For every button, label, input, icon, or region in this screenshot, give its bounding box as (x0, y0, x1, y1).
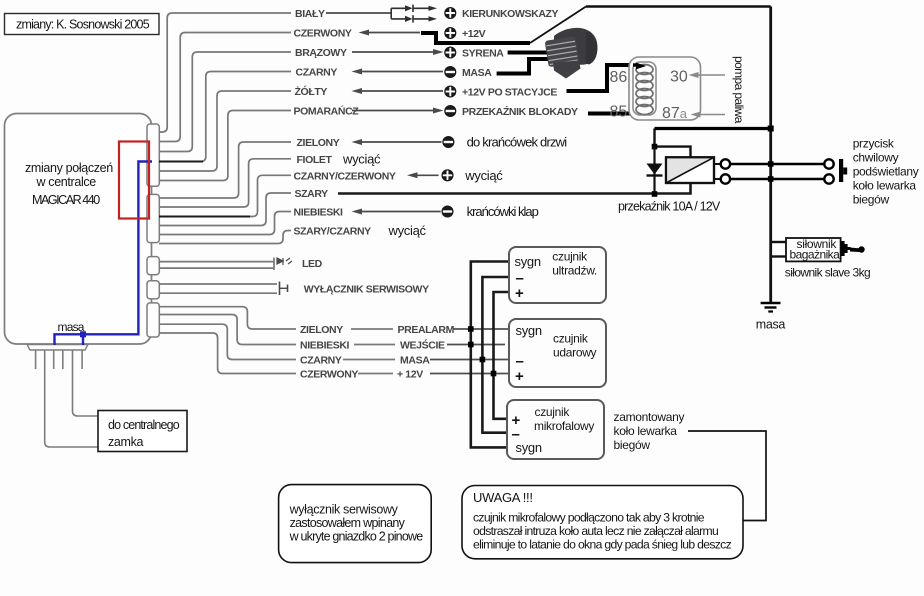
connector tab block 5 (bottom group) (147, 303, 159, 337)
terminal circle lower right (824, 174, 833, 183)
arrow ŻÓŁTY (left) (352, 88, 444, 94)
svg-text:87a: 87a (662, 105, 688, 122)
thick wire +12V PO STACYJCE to relay 86 (567, 65, 634, 91)
connector tab block 1 (147, 124, 159, 186)
svg-text:SZARY/CZARNY: SZARY/CZARNY (294, 226, 372, 238)
connector pin 5 (wire to central lock) (73, 350, 99, 416)
svg-text:BRĄZOWY: BRĄZOWY (295, 47, 347, 59)
connector pin 1 (35, 350, 37, 369)
svg-text:85: 85 (610, 104, 628, 121)
svg-text:koło lewarka: koło lewarka (614, 424, 678, 438)
connector tab block 3 (LED) (147, 257, 159, 275)
svg-text:zamka: zamka (108, 435, 143, 449)
wire BIAŁY to diodes (326, 12, 391, 14)
thick wire SYRENA (508, 51, 554, 55)
wire SZARY (159, 193, 291, 226)
connector tab block 4 (service switch) (147, 281, 159, 299)
wire zamontowany to uwaga box (688, 431, 766, 521)
wire stub to trunk actuator top (771, 241, 786, 243)
svg-text:ŻÓŁTY: ŻÓŁTY (295, 85, 328, 98)
junction dot wejście/sygn bus (468, 342, 474, 348)
wire +12V row to sensor (430, 373, 509, 375)
bus sygn vertical (471, 262, 509, 448)
arrow ZIELONY (left) (352, 139, 444, 145)
svg-text:CZARNY: CZARNY (300, 355, 342, 367)
blue masa wire inside unit (55, 162, 153, 346)
connector pin 4 (62, 350, 64, 369)
svg-text:CZARNY/CZERWONY: CZARNY/CZERWONY (294, 170, 396, 182)
junction dot diode top (652, 144, 658, 150)
svg-text:+: + (515, 285, 524, 302)
svg-text:wyciąć: wyciąć (388, 223, 427, 238)
svg-text:BIAŁY: BIAŁY (295, 8, 325, 20)
svg-text:+: + (515, 368, 524, 385)
aux relay coil box (przekaźnik 10A/12V) (666, 157, 714, 183)
arrow NIEBIESKI (left) (352, 209, 444, 215)
wire PREALARM row to sensor (453, 328, 510, 330)
svg-text:sygn: sygn (515, 254, 541, 269)
wire FIOLET (159, 159, 291, 207)
ground symbol (761, 303, 781, 312)
wire pair service switch (159, 284, 277, 293)
wire SZARY long line to relay (338, 184, 691, 194)
wire CZARNY/CZERWONY black segment (159, 216, 250, 218)
terminal circle upper left (721, 159, 730, 168)
wire ŻÓŁTY (159, 91, 291, 171)
svg-text:eliminuje to latanie do okna g: eliminuje to latanie do okna gdy pada śn… (473, 538, 732, 552)
svg-text:wyciąć: wyciąć (464, 168, 503, 183)
sensor box czujnik mikrofalowy (507, 400, 604, 459)
svg-text:sygn: sygn (516, 440, 542, 455)
arrow BRĄZOWY (right) (352, 49, 444, 55)
junction dot prealarm/sygn bus (468, 326, 474, 332)
node terminal minus (krańcówki klap) (441, 206, 455, 217)
svg-text:koło lewarka: koło lewarka (853, 179, 917, 193)
svg-text:+ 12V: + 12V (397, 369, 423, 381)
svg-text:do centralnego: do centralnego (108, 418, 180, 432)
svg-text:MASA: MASA (400, 355, 430, 367)
red highlight rectangle (119, 142, 149, 219)
svg-text:zmiany połączeń: zmiany połączeń (25, 161, 113, 175)
svg-text:udarowy: udarowy (553, 346, 597, 360)
service switch symbol (280, 282, 288, 296)
svg-text:CZERWONY: CZERWONY (294, 28, 352, 40)
wire ZIELONY (159, 142, 291, 198)
wire from pin 87a (691, 112, 726, 118)
svg-text:masa: masa (756, 318, 786, 332)
node terminal minus (przekaźnik blokady) (444, 106, 458, 117)
svg-text:w centralce: w centralce (36, 175, 97, 189)
wire CZARNY-MASA (343, 359, 395, 361)
diode D3 (flyback) (647, 147, 663, 194)
connector tab block 2 (147, 194, 159, 242)
wire POMARAŃCZ (159, 111, 291, 181)
thick wire +12V (czerwony) step (421, 33, 530, 43)
svg-text:SYRENA: SYRENA (462, 48, 504, 60)
svg-text:bagażnika: bagażnika (790, 248, 841, 262)
actuator plunger (841, 241, 865, 256)
wire MASA row to sensor (430, 359, 509, 361)
connector pin 3 (53, 350, 55, 369)
wire from pin 30 (689, 72, 726, 78)
wire CZERWONY (bottom group) (159, 333, 296, 374)
arrow POMARAŃCZ (right) (352, 108, 444, 114)
wire ZIELONY-PREALARM (351, 328, 393, 330)
svg-text:WYŁĄCZNIK SERWISOWY: WYŁĄCZNIK SERWISOWY (304, 284, 429, 296)
LED symbol (277, 258, 292, 265)
wire CZERWONY (159, 33, 291, 142)
svg-text:LED: LED (302, 258, 323, 270)
note box wyłącznik serwisowy (279, 485, 432, 563)
svg-text:w ukryte gniazdko 2 pinowe: w ukryte gniazdko 2 pinowe (289, 530, 424, 544)
svg-text:przycisk: przycisk (853, 137, 895, 151)
connector pin 2 (wire to central lock) (45, 350, 98, 447)
svg-text:przekaźnik 10A / 12V: przekaźnik 10A / 12V (618, 200, 721, 214)
thick wire aux relay top to rail (655, 127, 771, 130)
svg-text:zamontowany: zamontowany (614, 410, 685, 424)
junction dot diode bottom (652, 191, 658, 197)
relay coil (636, 65, 653, 115)
svg-text:CZERWONY: CZERWONY (300, 369, 358, 381)
node terminal plus (kierunkowskazy) (444, 7, 457, 20)
node terminal plus (+12V po stacyjce) (444, 85, 457, 98)
svg-text:ZIELONY: ZIELONY (300, 324, 343, 336)
svg-text:czujnik: czujnik (535, 405, 571, 419)
wire CZARNY black segment (159, 161, 203, 163)
svg-text:pompa paliwa: pompa paliwa (732, 56, 746, 124)
thick wire PRZEKAŹNIK BLOKADY to relay 85 (588, 112, 640, 116)
svg-text:SZARY: SZARY (295, 188, 329, 200)
wire button lower (731, 178, 824, 180)
arrow CZARNY (left) (352, 69, 444, 75)
main unit MAGICAR 440 (5, 114, 152, 345)
wire NIEBIESKI (bottom group) (159, 315, 296, 345)
label przycisk chwilowy (853, 137, 919, 207)
note box UWAGA (462, 486, 743, 559)
svg-text:WEJŚCIE: WEJŚCIE (400, 339, 445, 352)
wire top bracket of aux relay (655, 129, 691, 158)
wire top rail horizontal (586, 5, 771, 7)
svg-text:krańcówki klap: krańcówki klap (467, 204, 539, 219)
wire CZARNY (159, 72, 291, 162)
diode pair D1 D2 (kierunkowskazy) (391, 5, 437, 23)
svg-text:biegów: biegów (853, 193, 890, 207)
wire SZARY/CZARNY (159, 231, 291, 244)
svg-text:KIERUNKOWSKAZY: KIERUNKOWSKAZY (462, 8, 559, 20)
svg-text:FIOLET: FIOLET (297, 154, 333, 166)
svg-text:CZARNY: CZARNY (296, 67, 338, 79)
svg-text:+12V: +12V (462, 28, 486, 40)
svg-text:chwilowy: chwilowy (853, 151, 899, 165)
wire NIEBIESKI-WEJŚCIE (354, 344, 395, 346)
node terminal plus (syrena) (444, 46, 457, 59)
terminal circle upper right (824, 159, 833, 168)
svg-text:MASA: MASA (462, 67, 492, 79)
box: do centralnego zamka (98, 411, 187, 452)
svg-text:MAGICAR 440: MAGICAR 440 (32, 193, 100, 207)
svg-text:mikrofalowy: mikrofalowy (534, 419, 594, 433)
wire ZIELONY (bottom group) (159, 307, 296, 329)
svg-text:wyciąć: wyciąć (342, 151, 381, 166)
arrow CZARNY/CZERWONY (left) (407, 172, 439, 178)
svg-text:czujnik mikrofalowy podłączono: czujnik mikrofalowy podłączono tak aby 3… (473, 511, 705, 525)
svg-text:POMARAŃCZ: POMARAŃCZ (294, 105, 360, 118)
push button actuator (839, 159, 847, 182)
wire NIEBIESKI (159, 212, 291, 235)
wire BRĄZOWY (159, 52, 291, 152)
svg-text:odstraszał intruza koło auta l: odstraszał intruza koło auta lecz nie za… (473, 524, 718, 538)
junction dot masa/minus bus (480, 357, 486, 363)
relay box (fuel pump relay) (629, 57, 701, 120)
svg-text:siłownik slave 3kg: siłownik slave 3kg (785, 266, 870, 280)
bus minus vertical (482, 277, 509, 433)
svg-text:+12V PO STACYJCE: +12V PO STACYJCE (462, 87, 557, 99)
junction dot rail/upper button wire (768, 161, 774, 167)
svg-text:NIEBIESKI: NIEBIESKI (294, 207, 344, 219)
wire pair LED (159, 258, 274, 271)
thick wire MASA to siren (497, 59, 554, 74)
svg-text:ultradźw.: ultradźw. (552, 264, 597, 278)
node terminal plus (wyciąć) (441, 169, 454, 182)
svg-text:biegów: biegów (614, 438, 651, 452)
label zamontowany koło lewarka biegów (614, 410, 685, 452)
wire stub to trunk actuator bottom (771, 255, 786, 257)
wire CZERWONY-+12V (358, 373, 393, 375)
junction dot rail/lower button wire (768, 176, 774, 182)
svg-text:UWAGA !!!: UWAGA !!! (473, 490, 533, 505)
wire BIAŁY (159, 13, 291, 132)
svg-text:wyłącznik serwisowy: wyłącznik serwisowy (289, 503, 399, 517)
wire WEJŚCIE row (447, 344, 505, 346)
svg-text:masa: masa (58, 320, 85, 334)
trunk actuator box (siłownik bagażnika) (786, 237, 841, 262)
arrowhead into relay coil (636, 63, 646, 70)
siren horn (545, 28, 598, 79)
svg-text:czujnik: czujnik (553, 332, 589, 346)
svg-text:PREALARM: PREALARM (398, 324, 455, 336)
svg-text:30: 30 (670, 69, 688, 86)
sensor box czujnik ultradźw. (509, 247, 606, 303)
svg-text:zmiany: K. Sosnowski 2005: zmiany: K. Sosnowski 2005 (16, 18, 150, 32)
svg-text:NIEBIESKI: NIEBIESKI (300, 340, 350, 352)
svg-text:podświetlany: podświetlany (853, 165, 919, 179)
junction dot +12V/plus bus (491, 371, 497, 377)
svg-text:sygn: sygn (516, 323, 542, 338)
svg-text:zastosowałem wpinany: zastosowałem wpinany (290, 516, 406, 530)
svg-text:do krańcówek drzwi: do krańcówek drzwi (467, 135, 568, 150)
connector pin 6 (81, 350, 83, 369)
bus plus vertical (494, 292, 510, 419)
wire button upper (731, 163, 824, 165)
junction dot rail/top wire (768, 126, 774, 132)
bottom connector strip (27, 345, 88, 351)
sensor box czujnik udarowy (509, 319, 606, 387)
wire CZARNY (bottom group) (159, 324, 296, 359)
info box: zmiany K. Sosnowski 2005 (5, 14, 160, 35)
wire right rail vertical (769, 7, 772, 304)
svg-text:ZIELONY: ZIELONY (297, 137, 340, 149)
node terminal minus (masa) (444, 67, 458, 78)
svg-text:czujnik: czujnik (552, 250, 588, 264)
aux relay terminal stubs (714, 164, 721, 179)
svg-text:PRZEKAŹNIK BLOKADY: PRZEKAŹNIK BLOKADY (462, 105, 578, 118)
wire diagonal +12V to top rail (530, 7, 586, 44)
terminal circle lower left (721, 174, 730, 183)
wire CZARNY/CZERWONY (159, 175, 291, 216)
svg-text:86: 86 (610, 69, 628, 86)
arrow CZERWONY (left) (359, 30, 421, 36)
node terminal plus (+12V) (444, 27, 457, 40)
node terminal minus (krańcówki drzwi) (442, 137, 456, 148)
